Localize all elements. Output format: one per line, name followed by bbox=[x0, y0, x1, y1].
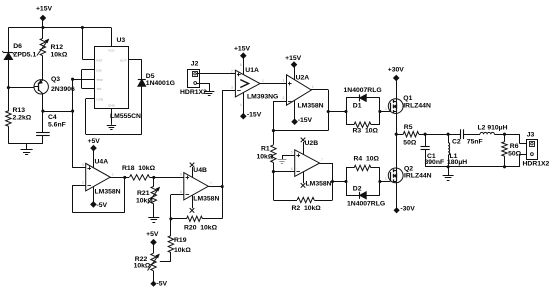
wire pin1 bbox=[197, 73, 236, 75]
svg-text:IRLZ44N: IRLZ44N bbox=[404, 172, 432, 179]
svg-text:LM358N: LM358N bbox=[298, 102, 324, 109]
ground bbox=[278, 159, 287, 161]
svg-text:-15V: -15V bbox=[247, 112, 262, 119]
svg-text:-15V: -15V bbox=[298, 117, 313, 124]
wire bbox=[8, 60, 10, 112]
svg-text:-30V: -30V bbox=[400, 206, 415, 213]
IC U3 LM555CN bbox=[95, 47, 129, 109]
ground bbox=[153, 204, 155, 217]
svg-text:8: 8 bbox=[240, 63, 242, 67]
wire bbox=[396, 80, 398, 99]
svg-text:R19: R19 bbox=[174, 237, 187, 244]
resistor R13 bbox=[6, 111, 11, 127]
wire - input U2B bbox=[273, 171, 294, 173]
svg-text:R3 10Ω: R3 10Ω bbox=[353, 128, 379, 135]
ground U3 bbox=[111, 108, 113, 124]
comparator U1A LM393NG bbox=[235, 70, 260, 97]
capacitor C2 bbox=[460, 129, 462, 139]
svg-text:HDR1X2: HDR1X2 bbox=[523, 160, 550, 167]
wire R2 row bbox=[273, 200, 297, 202]
wire base bbox=[8, 87, 34, 89]
svg-text:2N3906: 2N3906 bbox=[51, 86, 75, 93]
wire output bbox=[320, 163, 333, 165]
connector J2 HDR1X2 bbox=[188, 70, 200, 88]
wire output bbox=[311, 89, 328, 91]
wire bbox=[464, 134, 481, 136]
wire DIS-THR-TRI bracket bbox=[82, 69, 95, 71]
svg-text:2.2kΩ: 2.2kΩ bbox=[13, 114, 32, 121]
svg-text:D2: D2 bbox=[353, 186, 362, 193]
wire bbox=[243, 58, 245, 75]
svg-text:DIS: DIS bbox=[96, 68, 101, 72]
svg-text:LM358N: LM358N bbox=[95, 188, 121, 195]
svg-text:6: 6 bbox=[180, 190, 182, 194]
resistor R4 with diode D2 1N4007RLG bbox=[346, 168, 348, 195]
wire bbox=[273, 172, 275, 200]
wire bbox=[43, 111, 73, 113]
resistor R19 bbox=[168, 236, 173, 253]
diode D1 1N4007RLG with resistor R3 bbox=[346, 98, 348, 125]
wire RST to +15V bbox=[82, 59, 94, 61]
power -30V bbox=[394, 208, 399, 213]
wire bbox=[93, 150, 95, 167]
svg-text:R6: R6 bbox=[510, 143, 519, 150]
svg-text:J2: J2 bbox=[191, 60, 199, 67]
wire feedback rail bbox=[273, 130, 328, 132]
wire bbox=[170, 219, 172, 236]
wire bbox=[519, 134, 521, 144]
svg-text:LM393NG: LM393NG bbox=[247, 94, 278, 101]
svg-text:U2A: U2A bbox=[296, 75, 310, 82]
wire bbox=[419, 134, 448, 136]
svg-text:3: 3 bbox=[283, 79, 285, 83]
svg-text:5: 5 bbox=[291, 151, 293, 155]
wire bbox=[8, 28, 10, 53]
svg-text:7: 7 bbox=[321, 158, 323, 162]
wire bbox=[448, 134, 460, 136]
wire bbox=[425, 149, 427, 167]
wire output bbox=[208, 186, 222, 188]
svg-text:1N4007RLG: 1N4007RLG bbox=[347, 200, 385, 207]
wire pin2 bbox=[197, 83, 209, 85]
svg-text:RST: RST bbox=[96, 58, 102, 62]
variable resistor R21 bbox=[153, 177, 155, 186]
wire VCC bbox=[111, 28, 113, 47]
svg-text:VCC: VCC bbox=[108, 48, 115, 52]
wire THR to cap node bbox=[73, 79, 82, 81]
wire + input bbox=[282, 155, 295, 157]
power -15V bbox=[243, 92, 245, 114]
svg-text:10kΩ: 10kΩ bbox=[136, 198, 153, 205]
svg-text:HDR1X2: HDR1X2 bbox=[180, 89, 207, 96]
resistor R6 bbox=[504, 134, 506, 142]
inductor L2 bbox=[480, 132, 494, 134]
wire bbox=[273, 163, 275, 172]
wire bbox=[203, 218, 223, 220]
svg-text:U4B: U4B bbox=[193, 167, 207, 174]
wire bbox=[396, 134, 398, 169]
ground bbox=[26, 144, 28, 150]
wire to D1 bbox=[328, 111, 346, 113]
op-amp U4B LM358N bbox=[184, 173, 209, 200]
wire collector bbox=[42, 94, 44, 133]
wire bbox=[150, 177, 184, 179]
svg-text:7: 7 bbox=[210, 182, 212, 186]
svg-text:1: 1 bbox=[312, 85, 314, 89]
svg-text:R13: R13 bbox=[13, 107, 26, 114]
wire - input bbox=[222, 90, 235, 92]
wire bbox=[448, 155, 450, 167]
svg-text:3: 3 bbox=[82, 163, 84, 167]
wire wiper bbox=[160, 261, 171, 263]
wire feedback U4A bbox=[72, 185, 85, 187]
wire output row bbox=[110, 177, 129, 179]
wire - input U4B bbox=[170, 195, 172, 219]
svg-text:R18 10kΩ: R18 10kΩ bbox=[122, 165, 156, 172]
zener D6 bbox=[4, 52, 13, 54]
wire bottom-left rail bbox=[8, 143, 43, 145]
svg-text:U3: U3 bbox=[117, 37, 126, 44]
svg-text:10kΩ: 10kΩ bbox=[174, 247, 191, 254]
svg-text:-5V: -5V bbox=[97, 202, 108, 209]
op-amp U2A LM358N bbox=[287, 75, 312, 105]
wire bbox=[153, 271, 155, 282]
svg-text:180µH: 180µH bbox=[447, 159, 467, 166]
svg-text:5.6nF: 5.6nF bbox=[48, 122, 66, 129]
svg-text:50Ω: 50Ω bbox=[403, 139, 417, 146]
transistor Q2 IRLZ44N bbox=[388, 168, 403, 183]
svg-text:CON: CON bbox=[96, 97, 103, 101]
wire bbox=[42, 136, 44, 144]
svg-text:2: 2 bbox=[231, 69, 233, 73]
svg-text:OUT: OUT bbox=[120, 58, 127, 62]
wire bbox=[42, 56, 44, 80]
ground bbox=[204, 91, 214, 93]
svg-text:+15V: +15V bbox=[234, 46, 251, 53]
wire bbox=[294, 67, 296, 80]
svg-text:U1A: U1A bbox=[245, 67, 259, 74]
wire bbox=[8, 126, 10, 143]
svg-text:J3: J3 bbox=[527, 131, 535, 138]
svg-text:D5: D5 bbox=[146, 73, 155, 80]
svg-text:1N4001G: 1N4001G bbox=[146, 80, 175, 87]
op-amp U2B LM358N bbox=[295, 150, 320, 177]
svg-text:2: 2 bbox=[283, 96, 285, 100]
svg-text:IRLZ44N: IRLZ44N bbox=[403, 102, 431, 109]
svg-text:R20 10kΩ: R20 10kΩ bbox=[184, 225, 218, 232]
svg-text:390nF: 390nF bbox=[425, 159, 445, 166]
connector J3 HDR1X2 bbox=[527, 140, 538, 160]
variable resistor R22 bbox=[151, 253, 156, 271]
no-connect X bbox=[303, 142, 305, 154]
variable resistor R12 bbox=[42, 28, 44, 39]
wire bottom rail bbox=[425, 166, 520, 168]
diode D5 1N4001G bbox=[138, 79, 146, 81]
wire gate Q1 bbox=[380, 111, 390, 113]
resistor R5 bbox=[396, 134, 403, 136]
wire to U1A inverting bbox=[222, 90, 224, 219]
svg-text:75nF: 75nF bbox=[467, 138, 483, 145]
svg-text:R5: R5 bbox=[404, 124, 413, 131]
wire bbox=[494, 134, 519, 136]
resistor R20 bbox=[187, 216, 203, 221]
svg-text:+15V: +15V bbox=[285, 55, 302, 62]
svg-text:10kΩ: 10kΩ bbox=[51, 52, 68, 59]
wire bbox=[141, 59, 143, 79]
wire output bbox=[260, 83, 286, 85]
no-connect X bbox=[192, 167, 194, 177]
svg-text:1N4007RLG: 1N4007RLG bbox=[344, 87, 382, 94]
inductor L1 bbox=[448, 134, 450, 142]
svg-text:1: 1 bbox=[385, 177, 387, 181]
svg-text:-5V: -5V bbox=[157, 281, 168, 288]
resistor R18 bbox=[130, 175, 150, 180]
no-connect X bbox=[192, 195, 194, 208]
svg-text:U4A: U4A bbox=[95, 159, 109, 166]
svg-text:R12: R12 bbox=[51, 44, 64, 51]
svg-text:L2 910µH: L2 910µH bbox=[478, 125, 508, 132]
svg-text:1: 1 bbox=[385, 107, 387, 111]
svg-text:+5V: +5V bbox=[88, 138, 101, 145]
svg-text:D1: D1 bbox=[353, 102, 362, 109]
resistor R1 bbox=[273, 131, 275, 145]
svg-text:LM358N: LM358N bbox=[306, 181, 332, 188]
svg-text:+5V: +5V bbox=[146, 231, 159, 238]
wire bbox=[396, 182, 398, 208]
wire - input bbox=[273, 101, 286, 103]
ground bbox=[448, 167, 450, 175]
wire R20 row bbox=[171, 218, 187, 220]
wire bbox=[72, 79, 74, 168]
op-amp U4A LM358N bbox=[86, 163, 111, 191]
resistor R2 bbox=[297, 197, 314, 202]
svg-text:D6: D6 bbox=[13, 43, 22, 50]
wire top rail bbox=[8, 27, 111, 29]
capacitor C4 bbox=[36, 132, 50, 134]
svg-text:2: 2 bbox=[82, 180, 84, 184]
power -5V bbox=[93, 187, 95, 202]
svg-text:1: 1 bbox=[262, 79, 264, 83]
capacitor C1 bbox=[425, 134, 427, 146]
svg-text:GND: GND bbox=[108, 103, 116, 107]
no-connect X bbox=[303, 172, 305, 183]
wire bbox=[314, 200, 332, 202]
svg-text:+30V: +30V bbox=[388, 66, 405, 73]
svg-text:Q3: Q3 bbox=[51, 76, 60, 83]
wire + input bbox=[73, 167, 86, 169]
wire bbox=[153, 244, 155, 253]
power -5V bbox=[151, 281, 156, 286]
wire bbox=[504, 156, 506, 167]
wire bbox=[42, 20, 44, 28]
transistor Q1 IRLZ44N bbox=[388, 99, 403, 114]
transistor Q3 2N3906 bbox=[34, 80, 48, 94]
power -15V bbox=[294, 100, 296, 119]
svg-text:1: 1 bbox=[112, 173, 114, 177]
svg-text:10kΩ: 10kΩ bbox=[134, 262, 151, 269]
svg-text:3: 3 bbox=[231, 86, 233, 90]
svg-text:Q1: Q1 bbox=[403, 95, 412, 102]
svg-text:LM358N: LM358N bbox=[193, 196, 219, 203]
svg-text:R21: R21 bbox=[137, 190, 150, 197]
svg-text:LM555CN: LM555CN bbox=[110, 113, 141, 120]
svg-text:R1: R1 bbox=[261, 145, 270, 152]
wire CON loop bbox=[86, 98, 95, 100]
svg-text:10kΩ: 10kΩ bbox=[257, 154, 274, 161]
svg-text:THR: THR bbox=[96, 78, 103, 82]
wire to R4 box bbox=[333, 181, 347, 183]
wire bbox=[396, 113, 398, 135]
svg-text:+15V: +15V bbox=[36, 6, 53, 13]
svg-text:R2 10kΩ: R2 10kΩ bbox=[292, 205, 322, 212]
svg-text:ZPD5.1: ZPD5.1 bbox=[13, 51, 36, 58]
svg-text:TRI: TRI bbox=[96, 87, 101, 91]
wire bbox=[519, 154, 521, 167]
svg-text:U2B: U2B bbox=[305, 140, 319, 147]
wire gate Q2 bbox=[380, 181, 390, 183]
svg-text:R4 10Ω: R4 10Ω bbox=[354, 156, 380, 163]
svg-text:4: 4 bbox=[240, 103, 242, 107]
svg-text:C4: C4 bbox=[48, 114, 57, 121]
svg-text:6: 6 bbox=[291, 167, 293, 171]
svg-text:5: 5 bbox=[180, 173, 182, 177]
svg-text:C2: C2 bbox=[452, 139, 461, 146]
